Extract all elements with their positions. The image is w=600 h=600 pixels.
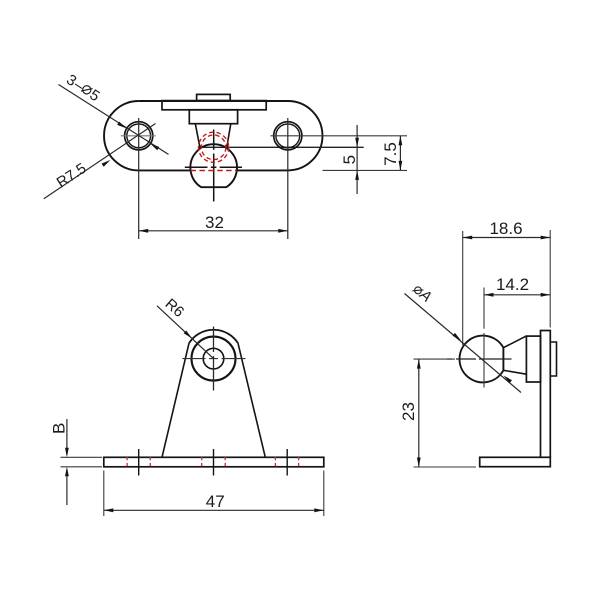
left hole (top view)	[125, 122, 153, 150]
svg-text:23: 23	[399, 402, 418, 421]
leader 3-d5 arrowheads	[117, 122, 127, 130]
right hole (top view)	[274, 122, 302, 150]
svg-text:7.5: 7.5	[381, 142, 400, 166]
dim 32 line	[139, 230, 288, 232]
hidden hole edges in base plate (red dashed)	[127, 457, 299, 467]
hidden edge behind ball (red dashed line)	[191, 170, 238, 172]
leader 3-d5 line	[59, 85, 169, 155]
text 5	[340, 155, 359, 164]
svg-text:18.6: 18.6	[489, 219, 522, 238]
leader R7.5 line	[44, 124, 156, 199]
text 7.5	[381, 142, 400, 166]
L bracket base	[480, 457, 551, 466]
stadium plate outline (top view)	[104, 101, 322, 170]
knuckle outer arc R6	[189, 330, 238, 343]
dim B line + arrows (outside)	[66, 419, 68, 505]
left hole vertical extension line (to dim 32)	[138, 118, 140, 239]
leader R7.5 arrowhead	[102, 158, 112, 166]
ball horizontal centerline	[185, 166, 242, 168]
gusset right slant	[238, 343, 265, 457]
dim 47 extension lines	[104, 471, 324, 517]
cone neck to flange	[503, 336, 526, 374]
junction dots	[198, 146, 202, 150]
dim 18.6 line	[463, 237, 551, 239]
leader dA arrowheads	[453, 333, 463, 342]
knuckle socket circle	[192, 337, 236, 381]
svg-text:32: 32	[205, 213, 224, 232]
ball vertical centerline / ext of 14.2	[483, 288, 485, 388]
ball horizontal centerline (side view)	[447, 358, 512, 360]
base plate (front view)	[104, 457, 324, 467]
dim 23 extension lines	[414, 359, 477, 467]
junction line / extension for dim 5	[200, 146, 364, 148]
hidden ball socket circles (red dashed, top view)	[199, 132, 229, 162]
dim 7.5 line (vertical, arrows inside)	[399, 136, 401, 171]
text dA	[410, 281, 435, 306]
svg-text:B: B	[49, 423, 68, 434]
text R6	[162, 295, 188, 320]
svg-text:A: A	[415, 286, 434, 306]
leader R6 line	[157, 306, 214, 359]
svg-text:47: 47	[206, 492, 225, 511]
svg-text:R6: R6	[162, 295, 188, 320]
svg-text:5: 5	[340, 155, 359, 164]
leader dA line	[405, 294, 522, 393]
ball circle with bottom flat (top view)	[190, 144, 237, 187]
right hole vertical extension line (to dim 32)	[287, 118, 289, 239]
dim 23 line	[418, 359, 420, 467]
base plate hole centermarks (black ticks)	[139, 449, 288, 476]
text 3-d5	[63, 71, 102, 105]
dim 14.2 line	[484, 294, 550, 296]
ext line left for 18.6	[462, 231, 464, 345]
dim B extension lines	[61, 457, 103, 467]
flange rect A	[526, 336, 540, 382]
text R7.5	[54, 160, 90, 192]
dim 47 line	[104, 509, 324, 511]
taper sides to ball (top view)	[195, 124, 231, 148]
vertical plate of L bracket	[541, 331, 551, 458]
gusset left slant	[162, 343, 189, 457]
boss behind plate	[550, 342, 556, 376]
leader R6 arrowhead	[184, 331, 194, 340]
knuckle pivot hole	[203, 348, 224, 369]
text 23	[399, 402, 418, 421]
ball (side view, flat on right)	[460, 336, 504, 383]
neck rect (top view)	[189, 110, 237, 124]
top tab (vertical plate end, top view)	[197, 94, 231, 100]
svg-text:R7.5: R7.5	[54, 160, 90, 192]
left hole horizontal centermark	[121, 135, 156, 137]
ext line right for 18.6/14.2	[549, 230, 551, 328]
ball vertical centerline	[213, 130, 215, 202]
text B	[49, 423, 68, 434]
dim 5 line (vertical, arrows outside)	[356, 125, 358, 194]
svg-text:14.2: 14.2	[496, 275, 529, 294]
knuckle centerlines	[213, 327, 215, 391]
flange plate rect (top view)	[162, 101, 266, 110]
right hole horizontal centerline extended (ext for dim 7.5)	[271, 135, 408, 137]
stadium bottom edge extension (ext for dims 5/7.5)	[323, 169, 408, 171]
